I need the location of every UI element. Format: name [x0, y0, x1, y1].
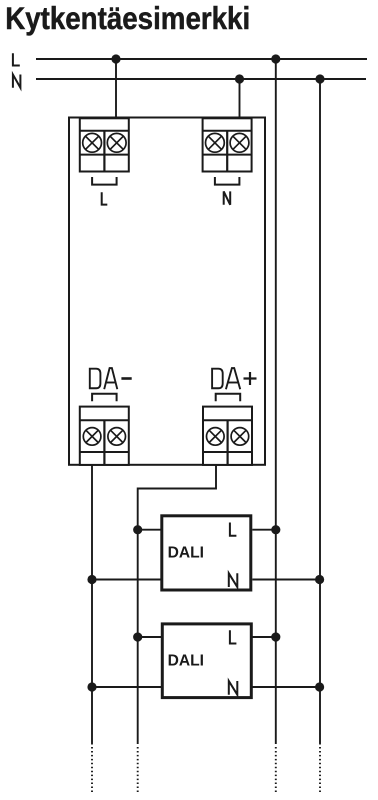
- svg-text:DALI: DALI: [168, 545, 204, 562]
- svg-text:DALI: DALI: [168, 652, 204, 669]
- svg-text:Kytkentäesimerkki: Kytkentäesimerkki: [5, 0, 250, 36]
